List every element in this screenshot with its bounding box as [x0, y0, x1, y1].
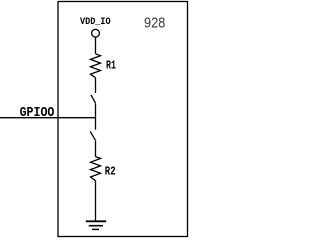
wire R2 to ground [95, 181, 97, 221]
switch 1 lever [91, 95, 96, 103]
switch 2 lever [90, 131, 95, 140]
ground [86, 221, 106, 229]
resistor R2 [91, 157, 101, 181]
svg-text:R1: R1 [106, 59, 116, 73]
wire R1 to switch 1 [95, 78, 97, 93]
wire circle to R1 [95, 37, 97, 54]
wire GPIO0 horizontal [0, 117, 96, 119]
wire switch 1 to switch 2 through node [95, 104, 97, 130]
resistor R1 [91, 54, 101, 78]
svg-text:928: 928 [144, 16, 165, 32]
wire switch 2 to R2 [95, 141, 97, 157]
svg-text:R2: R2 [105, 165, 116, 179]
svg-text:GPIOO: GPIOO [20, 106, 55, 121]
svg-text:VDD_IO: VDD_IO [80, 16, 111, 28]
border frame [58, 2, 188, 237]
power terminal circle VDD_IO [92, 29, 100, 37]
